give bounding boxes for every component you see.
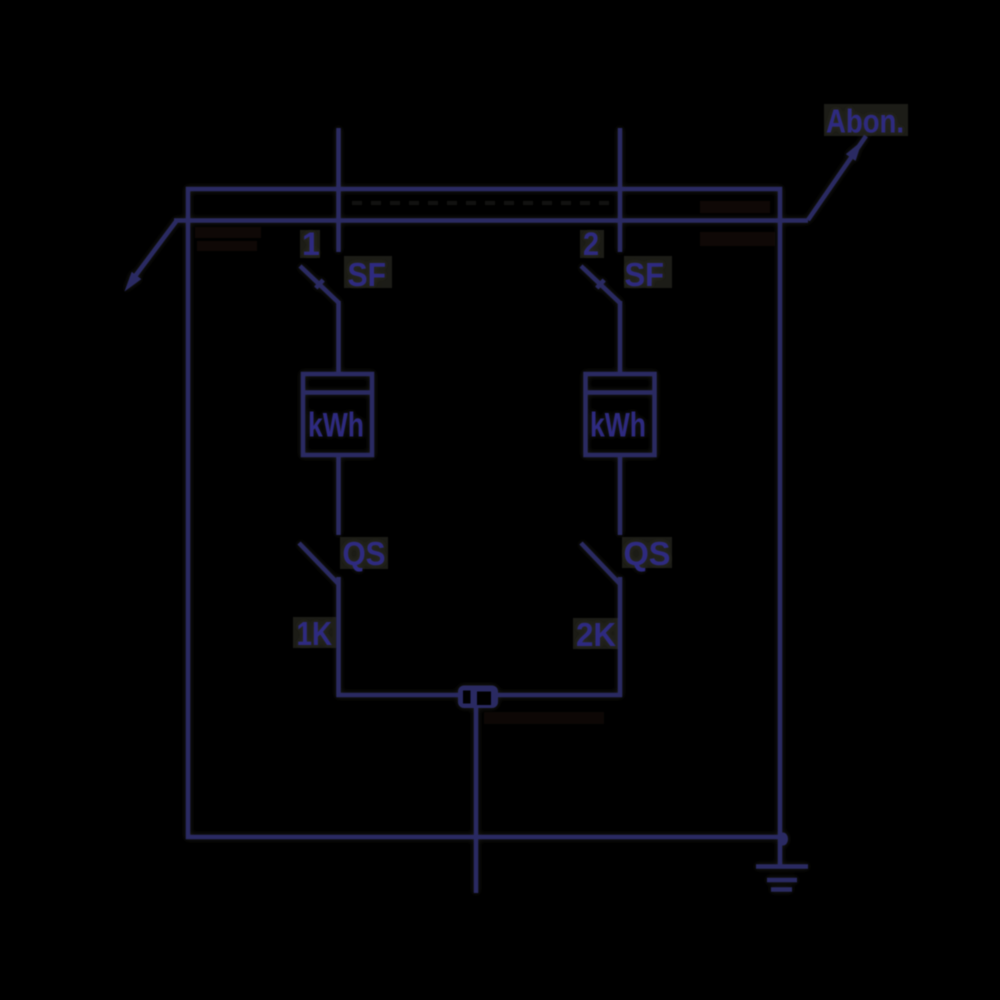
- svg-text:QS: QS: [624, 535, 671, 572]
- meter kWh1 box: [303, 374, 372, 455]
- svg-text:SF: SF: [625, 256, 665, 293]
- meter kWh2 divider: [587, 390, 654, 395]
- breaker SF1 blade: [300, 266, 339, 303]
- svg-text:Abon.: Abon.: [826, 103, 904, 140]
- svg-text:2K: 2K: [576, 616, 616, 653]
- wire SF2 to meter2: [618, 301, 623, 375]
- ghost text top-right: [700, 201, 775, 246]
- Abon arrow head: [846, 141, 862, 161]
- switch QS1 blade: [299, 543, 339, 584]
- wire top bus: [174, 218, 808, 223]
- ghost dashed line between top buses: [352, 201, 622, 205]
- ground bar 2: [767, 878, 797, 883]
- svg-text:1: 1: [302, 226, 320, 262]
- label halo blocks: [293, 104, 908, 649]
- wire branch2 riser top: [618, 128, 623, 252]
- svg-text:kWh: kWh: [590, 407, 646, 445]
- breaker SF1 cross tick: [316, 280, 323, 288]
- svg-text:2: 2: [583, 226, 599, 262]
- ground bar 3: [771, 887, 792, 892]
- svg-text:QS: QS: [343, 535, 386, 572]
- ground bar 1: [756, 864, 808, 869]
- svg-text:SF: SF: [348, 256, 387, 293]
- breaker SF2 cross tick: [597, 280, 604, 288]
- wire branch1 riser top: [336, 128, 341, 252]
- wire SF1 to meter1: [336, 301, 341, 375]
- incoming arrow head: [125, 272, 142, 292]
- junction dot at ground tap: [778, 833, 788, 846]
- wire meter1 to QS1: [336, 454, 341, 535]
- ghost caption under junction: [484, 712, 604, 724]
- outgoing Abon arrow line: [808, 136, 866, 220]
- enclosure box: [188, 189, 780, 837]
- svg-text:1K: 1K: [297, 615, 333, 652]
- wire QS2 down to bottom link: [618, 577, 623, 697]
- meter kWh1 divider: [304, 390, 371, 395]
- wire bottom link between branches: [337, 693, 623, 698]
- meter kWh2 box: [586, 374, 655, 455]
- wire junction drop to bottom bus: [474, 708, 479, 893]
- ghost text top-left: [195, 227, 261, 251]
- incoming supply arrow line: [130, 222, 176, 284]
- breaker SF2 blade: [581, 266, 620, 303]
- wire ground drop: [778, 837, 783, 866]
- wire QS1 down to bottom link: [336, 577, 341, 697]
- wire meter2 to QS2: [618, 454, 623, 535]
- junction test box: [458, 686, 498, 709]
- svg-text:kWh: kWh: [308, 407, 364, 445]
- switch QS2 blade: [581, 543, 620, 584]
